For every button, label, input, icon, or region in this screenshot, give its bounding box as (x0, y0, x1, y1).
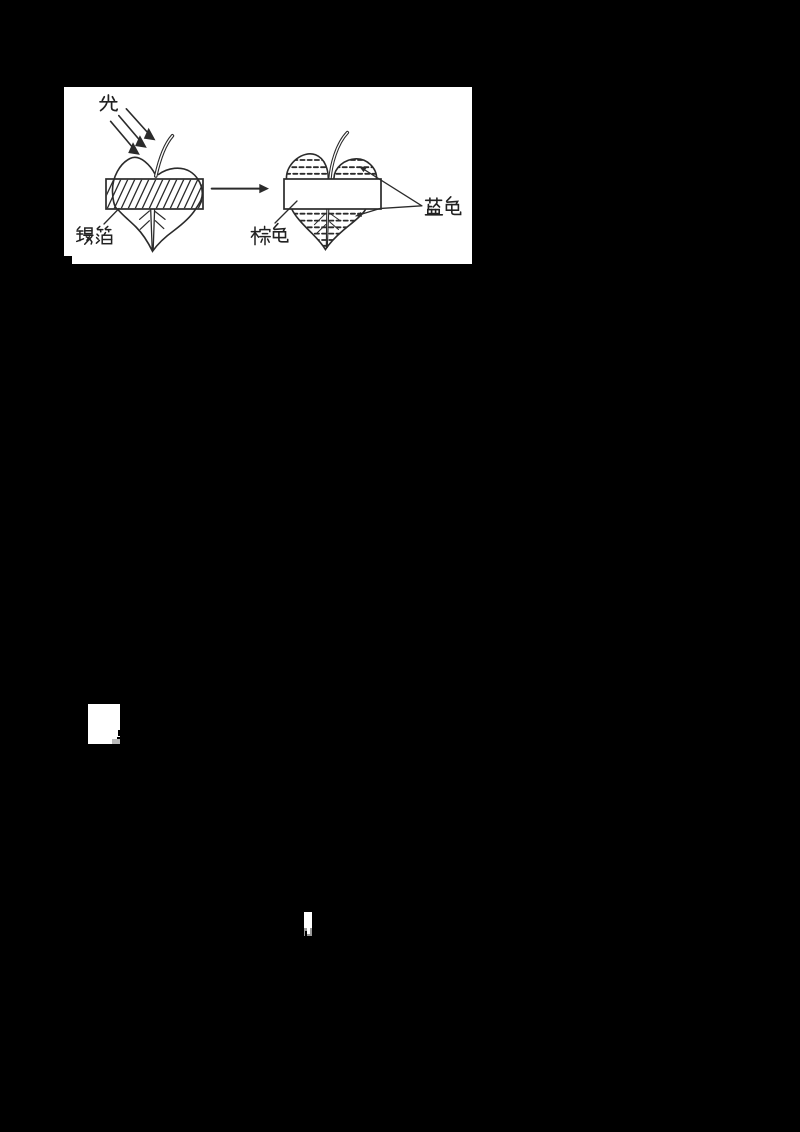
left leaf stem (petiole) (156, 136, 173, 176)
notch at panel bottom-left corner (64, 256, 72, 264)
arrow between leaves (212, 188, 260, 190)
label 色 glyph (after 蓝) (446, 197, 460, 215)
light arrows (three) (111, 109, 149, 148)
label 蓝 glyph (426, 198, 443, 215)
right leaf side veins (314, 213, 339, 233)
small white fragment 2 (304, 912, 312, 928)
left leaf side veins (140, 211, 166, 229)
right leaf dotted shading (top lobes and bottom) (285, 160, 377, 246)
white band on right leaf (284, 179, 381, 209)
diagram white panel (64, 87, 472, 264)
label 锡 glyph (77, 227, 93, 244)
label 色 glyph (after 棕) (274, 224, 288, 242)
label 锡箔 (tin foil) pointer line (104, 209, 119, 225)
hatch lines (100, 179, 212, 209)
label 蓝色 callout lower line with arrowhead (358, 206, 422, 215)
right leaf stem (330, 133, 347, 179)
label 棕色 pointer line (275, 201, 297, 223)
label 蓝色 callout upper line with arrowhead (363, 169, 422, 206)
right leaf outline (286, 154, 376, 250)
tin-foil band (hatched rectangle) (106, 179, 203, 209)
left leaf midrib (double line) (151, 210, 155, 250)
small white fragment 1 (88, 704, 120, 744)
label 光 (light) hand-drawn glyph (100, 95, 117, 111)
label 棕 glyph (251, 226, 270, 244)
left leaf outline (112, 157, 202, 251)
right leaf midrib (326, 209, 329, 248)
diagram svg (64, 87, 472, 264)
label 箔 glyph (96, 226, 111, 243)
arrowhead (259, 184, 269, 193)
